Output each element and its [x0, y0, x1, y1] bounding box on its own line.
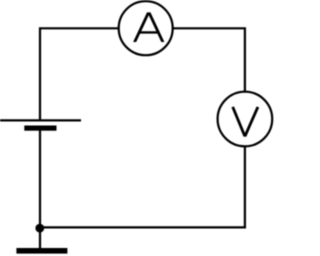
wire top-right from ammeter to corner and down to voltmeter [172, 28, 245, 93]
ground bar [16, 248, 67, 254]
voltmeter label V [233, 107, 258, 136]
battery short thick plate (negative) [24, 126, 56, 131]
wire battery negative down to ground bar [39, 130, 41, 249]
battery long plate (positive) [0, 119, 81, 121]
voltmeter U2 circle [218, 92, 273, 147]
wire top-left from battery up and across to ammeter [40, 28, 120, 120]
node junction dot [35, 224, 44, 233]
wire right-bottom from voltmeter down and across to junction [39, 145, 245, 227]
ammeter label A [133, 12, 164, 42]
ammeter U1 circle [119, 1, 173, 55]
